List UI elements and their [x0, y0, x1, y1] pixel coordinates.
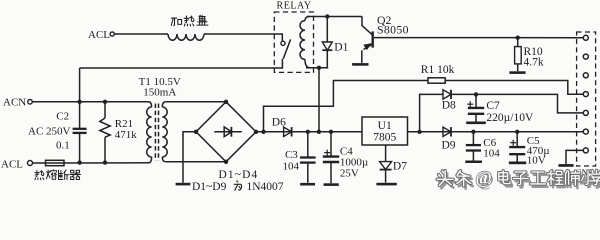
transistor Q2 base bar	[372, 31, 374, 47]
bridge inner diode symbol	[214, 131, 242, 133]
terminal ACN	[28, 100, 33, 105]
terminal ACL (top)	[110, 32, 114, 36]
node: D8 takeoff	[417, 130, 421, 134]
svg-text:0.1: 0.1	[56, 140, 70, 152]
capacitor C2 (AC 250V 0.1)	[79, 102, 81, 129]
ground (C6)	[465, 161, 482, 164]
svg-text:AC 250V: AC 250V	[28, 126, 71, 138]
svg-text:D1~D9: D1~D9	[192, 181, 227, 191]
resistor R10	[517, 38, 519, 47]
svg-text:D1~D4: D1~D4	[219, 169, 259, 181]
node relay drop	[317, 130, 321, 134]
wire: heater to relay switch	[204, 34, 282, 41]
capacitor C5 470u 10V (+)	[516, 132, 518, 147]
svg-text:@: @	[476, 167, 492, 187]
svg-text:RELAY: RELAY	[277, 1, 312, 12]
diode D7 (U1 ground)	[385, 145, 387, 162]
svg-text:D8: D8	[442, 100, 456, 112]
wire: relay coil bottom / D1 bottom	[306, 67, 328, 69]
watermark 头条 @电子工程师小学	[439, 174, 455, 189]
capacitor C4 1000u 25V (+)	[330, 132, 332, 157]
wire: Q2 base to CN5 terminal 1	[374, 37, 583, 39]
relay switch blade	[283, 39, 290, 58]
ground (C3)	[300, 183, 315, 186]
wire: bypass from bridge+ to R1	[264, 81, 429, 132]
transistor Q2 S8050 collector lead	[362, 17, 372, 35]
diode D8	[443, 90, 451, 99]
svg-text:471k: 471k	[115, 129, 138, 141]
diode D1 (flyback)	[326, 17, 328, 43]
node: switch return joins ACN at C2 top	[77, 100, 81, 104]
wire: ACN line to transformer primary	[32, 101, 148, 103]
svg-text:4.7k: 4.7k	[524, 56, 544, 68]
svg-text:104: 104	[483, 148, 500, 160]
svg-text:U1: U1	[378, 120, 392, 132]
transistor Q2 emitter lead with arrow	[364, 44, 373, 49]
svg-text:C7: C7	[486, 100, 500, 112]
bridge nodes	[224, 100, 228, 104]
svg-text:7805: 7805	[373, 131, 396, 143]
ground (D7)	[376, 183, 396, 186]
diode D9	[443, 127, 451, 136]
node C7 top	[474, 92, 478, 96]
transformer T1 primary winding	[149, 102, 152, 107]
wire: +10V rail from bridge to U1	[256, 131, 362, 133]
svg-text:S8050: S8050	[377, 22, 409, 36]
svg-text:C2: C2	[56, 110, 69, 122]
svg-text:104: 104	[283, 160, 300, 172]
svg-text:ACN: ACN	[3, 96, 26, 108]
ground (C7)	[466, 122, 486, 125]
node: R10 top	[516, 36, 520, 40]
svg-text:ACL: ACL	[1, 158, 23, 170]
node: R1 takeoff	[261, 130, 265, 134]
svg-text:ACL: ACL	[88, 29, 110, 41]
terminal ACL (bottom)	[28, 161, 33, 166]
node: D1 top	[325, 14, 329, 18]
capacitor C7 220u/10V (+)	[475, 94, 477, 107]
node C6 top	[471, 130, 475, 134]
svg-text:150mA: 150mA	[143, 87, 176, 99]
wire: relay coil bottom down to +10V rail	[318, 68, 320, 132]
node C5 top	[515, 130, 519, 134]
svg-text:D7: D7	[393, 161, 407, 173]
wire: switch to ACN node	[80, 59, 283, 68]
node: R21 top	[103, 100, 107, 104]
wire: R1 to CN5 terminal 4	[445, 81, 583, 95]
ground (C5)	[509, 162, 526, 165]
svg-text:1N4007: 1N4007	[247, 181, 284, 191]
transformer T1 core	[154, 104, 156, 161]
wire: bridge negative to ground	[183, 132, 196, 183]
CN5 terminal pins	[583, 35, 588, 40]
svg-text:25V: 25V	[340, 167, 359, 179]
wire: 5V via D8 branch	[420, 94, 443, 131]
ground (C4)	[324, 183, 339, 186]
wire: secondary bottom to bridge AC-	[166, 161, 226, 163]
wire: ACL top terminal to heater coil	[114, 33, 168, 35]
svg-text:220µ/10V: 220µ/10V	[486, 112, 534, 124]
diode D6	[284, 127, 292, 136]
capacitor C6 104	[472, 132, 474, 145]
node: C2 bottom on ACL line	[77, 160, 81, 164]
wire: CN5 terminal 7 to ground	[566, 150, 583, 164]
resistor R1 10k	[428, 78, 445, 83]
relay switch contact	[281, 41, 285, 45]
ground (R10)	[509, 71, 525, 74]
thermal fuse 热熔断器	[46, 160, 65, 165]
regulator U1 7805	[362, 117, 408, 145]
svg-text:D6: D6	[272, 117, 286, 129]
svg-text:R1 10k: R1 10k	[421, 64, 455, 76]
wire: D8 to C7 and CN5 terminal 5	[451, 94, 583, 113]
transformer T1 secondary winding	[162, 102, 166, 107]
connector CN5 (dashed)	[577, 32, 596, 166]
resistor R21 471k (zigzag)	[104, 102, 106, 118]
ground (Q2 emitter)	[352, 63, 368, 66]
ground (CN5 pin 7)	[558, 164, 573, 167]
inductor 加热盘 (heating plate)	[168, 34, 204, 40]
capacitor C3 104	[307, 132, 309, 158]
node C3 top	[306, 130, 310, 134]
svg-text:D1: D1	[334, 41, 348, 53]
bridge rectifier D1~D4 diamond	[196, 102, 256, 162]
wire: secondary top to bridge AC+	[166, 101, 226, 103]
node: coil bottom to +10V drop	[317, 66, 321, 70]
wire: 5V rail from U1 to CN5 terminal 6	[408, 131, 584, 133]
svg-text:D9: D9	[442, 140, 456, 152]
relay box (dashed)	[274, 12, 313, 72]
svg-text:10V: 10V	[527, 155, 546, 167]
relay coil	[305, 17, 310, 21]
ground (bridge negative)	[176, 183, 191, 186]
node C4 top	[329, 130, 333, 134]
wire: fuse to transformer primary bottom / ACL line	[64, 162, 149, 164]
wire: relay coil top to Q2 collector	[307, 16, 362, 18]
wire ACL to thermal fuse	[33, 162, 46, 164]
